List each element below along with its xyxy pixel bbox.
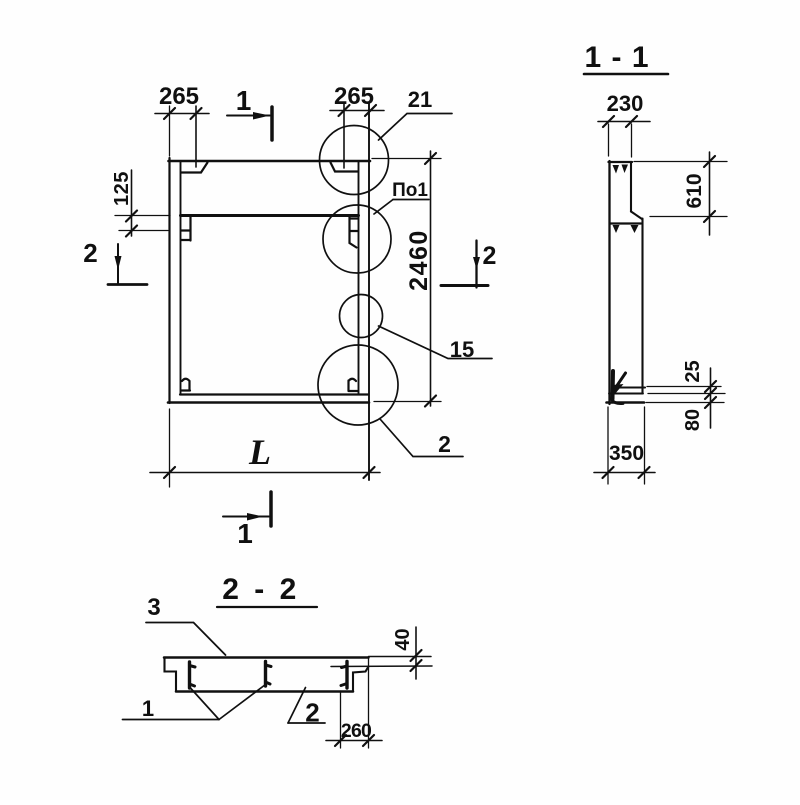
section profile right upper edge: [630, 162, 632, 212]
panel top edge: [169, 160, 371, 163]
panel left outer edge: [168, 158, 170, 403]
dimension 125: extension A: [115, 215, 170, 217]
slab right end step: [353, 667, 369, 692]
svg-text:265: 265: [159, 83, 199, 110]
svg-text:3: 3: [147, 594, 160, 621]
dimension L: extension left: [169, 409, 171, 487]
anchor hook diagonal: [614, 373, 626, 390]
svg-text:610: 610: [683, 173, 706, 208]
svg-text:2: 2: [83, 238, 97, 268]
svg-text:265: 265: [334, 83, 374, 110]
corner notch top-right: [331, 163, 359, 172]
dimension 350: extension A: [607, 407, 609, 484]
title 1-1 underline: [584, 73, 668, 76]
svg-text:40: 40: [392, 628, 414, 650]
label 2: leader: [288, 688, 306, 724]
slab bottom edge: [176, 690, 353, 693]
svg-text:По1: По1: [392, 180, 428, 201]
label 1: shelf: [123, 719, 220, 721]
dimension 350: tick B: [639, 467, 650, 478]
dimension 80: extension C: [646, 402, 724, 404]
dimension 265 left: tick A: [164, 108, 175, 119]
rebar mark top A: [613, 165, 620, 174]
svg-text:15: 15: [450, 337, 474, 362]
dimension 265 left: line: [155, 113, 209, 115]
panel left inner line: [180, 162, 182, 394]
section mark 2 left: line: [117, 244, 119, 284]
panel right inner line: [358, 162, 360, 394]
section mark 2 right: arrow: [473, 257, 480, 269]
rebar bar 3 hooks: [341, 666, 347, 686]
dimension 265 left: extension line A: [169, 106, 171, 156]
dimension 2460: extension top: [372, 158, 441, 160]
anchor hook head: [613, 384, 624, 395]
svg-text:21: 21: [408, 87, 432, 112]
section mark 1 top: bar: [270, 107, 274, 140]
svg-text:1: 1: [237, 518, 253, 549]
section profile inner flange line: [611, 222, 642, 224]
label По1: underline: [393, 199, 429, 201]
label 3: leader: [146, 623, 226, 656]
section mark 2 left: arrow: [115, 256, 122, 270]
corner notch top-left: [181, 163, 208, 173]
dimension 350: extension B: [644, 407, 646, 484]
label По1: leader: [374, 200, 393, 215]
bracket detail bottom-right: [349, 379, 359, 391]
bracket detail mid-left: [181, 217, 191, 241]
dimension 610: extension bottom: [650, 216, 727, 218]
section profile left edge: [608, 161, 610, 404]
dimension 230: extension B: [631, 124, 633, 157]
dimension 265 right: extension line A: [343, 103, 345, 168]
rebar mark mid A: [613, 225, 620, 233]
rebar bar 1: [188, 662, 191, 688]
svg-text:80: 80: [682, 409, 704, 431]
slab top edge: [164, 656, 369, 659]
section mark 1 bottom: bar: [269, 492, 273, 526]
svg-text:25: 25: [682, 360, 704, 382]
title 2-2 underline: [217, 606, 317, 608]
rebar bar 1 hooks: [190, 666, 196, 687]
dimension 230: tick B: [626, 116, 637, 127]
dimension 260: tick B: [363, 735, 374, 746]
svg-text:125: 125: [111, 171, 133, 206]
dimension 610: line: [709, 152, 711, 235]
dimension 40: line: [415, 627, 417, 679]
svg-text:L: L: [248, 432, 271, 472]
dimension L: tick left: [164, 467, 175, 478]
dimension 125: tick top: [126, 211, 137, 222]
dimension 350: line: [594, 472, 655, 474]
panel right outer edge / extension line: [368, 103, 370, 480]
section mark 1 bottom: line: [223, 516, 269, 518]
svg-text:2: 2: [483, 242, 497, 270]
dimension 25: extension B: [648, 393, 725, 395]
label 1: leader V right: [219, 685, 266, 720]
label 2: leader: [380, 419, 463, 457]
anchor hook in foot: [611, 371, 616, 399]
dimension 2460: tick bottom: [425, 396, 436, 407]
detail circle 1: [320, 126, 389, 195]
panel bottom band bottom line: [168, 401, 369, 404]
panel bottom band top line: [180, 393, 368, 395]
detail circle 4: [318, 345, 398, 425]
rebar bar 3: [345, 662, 348, 689]
section mark 2 right: line: [475, 241, 477, 288]
dimension 230: tick A: [603, 116, 614, 127]
svg-text:350: 350: [609, 442, 644, 465]
dimension L: line: [150, 472, 380, 474]
svg-text:1: 1: [142, 696, 154, 721]
dimension 265 right: tick A: [339, 105, 350, 116]
section profile right lower edge: [641, 219, 643, 394]
panel middle rib line: [181, 214, 359, 217]
detail circle 2: [323, 205, 391, 273]
anchor hook toe: [611, 399, 623, 404]
dimension 125: extension B: [119, 230, 168, 232]
section mark 2 right: bar: [441, 284, 488, 287]
svg-text:1 - 1: 1 - 1: [584, 41, 649, 74]
label 15: leader: [379, 326, 493, 359]
dimension 125: line: [131, 170, 133, 236]
dimension 25: extension A: [647, 386, 721, 388]
dimension 25: tick A: [705, 381, 716, 392]
svg-text:230: 230: [607, 91, 644, 116]
dimension 265 right: line: [330, 110, 384, 112]
dimension 40: extension (top edge extended): [369, 656, 432, 658]
slab left end step: [165, 658, 177, 692]
dimension 260: tick A: [335, 735, 346, 746]
svg-text:2: 2: [438, 431, 451, 457]
dimension 80: tick C: [705, 397, 716, 408]
dimension L: tick right: [364, 467, 375, 478]
section mark 1 top: arrow: [253, 112, 270, 120]
dimension 2460: tick top: [425, 153, 436, 164]
svg-text:2 - 2: 2 - 2: [222, 573, 300, 606]
section profile top edge: [609, 161, 633, 163]
svg-text:260: 260: [341, 720, 372, 742]
dimension 610: extension top: [634, 161, 727, 163]
bracket detail bottom-left: [181, 379, 190, 391]
dimension 2460: extension bottom: [374, 401, 441, 403]
dimension 350: tick A: [603, 467, 614, 478]
dimension 265 right: tick B: [365, 105, 376, 116]
label 21: leader: [379, 114, 453, 141]
dimension 230: line: [598, 121, 650, 123]
detail circle 3: [340, 295, 383, 338]
section profile step: [631, 212, 642, 220]
dimension 25-80: line: [710, 368, 712, 428]
dimension 2460: line: [430, 151, 432, 406]
dimension 40: tick B: [411, 660, 422, 671]
dimension 40: tick A: [411, 650, 422, 661]
svg-text:2460: 2460: [405, 229, 433, 291]
slab flange underside line: [331, 665, 432, 668]
svg-text:1: 1: [236, 85, 252, 116]
foot top line: [618, 386, 645, 388]
rebar bar 2 hooks: [266, 665, 272, 684]
section mark 1 top: line: [227, 115, 270, 117]
section mark 1 bottom: arrow: [247, 513, 263, 521]
dimension 260: line: [326, 740, 382, 742]
dimension 265 left: tick B: [191, 108, 202, 119]
rebar bar 2: [264, 662, 267, 687]
label 1: leader V left: [190, 688, 219, 720]
dimension 260: extension A: [340, 691, 342, 748]
dimension 260: extension B: [368, 659, 370, 748]
dimension 125: tick bottom: [126, 226, 137, 237]
foot bottom line: [607, 401, 645, 404]
rebar mark mid B: [631, 225, 639, 233]
dimension 80: tick B: [705, 388, 716, 399]
foot middle line: [609, 393, 643, 395]
rebar mark top B: [622, 165, 629, 174]
bracket detail mid-right (По1 item): [350, 217, 359, 248]
label 2: shelf: [288, 722, 325, 724]
dimension 265 left: extension line B: [195, 106, 197, 167]
dimension 610: tick top: [704, 156, 715, 167]
dimension 610: tick bottom: [704, 211, 715, 222]
dimension 230: extension A: [608, 124, 610, 156]
section mark 2 left: bar: [108, 283, 147, 286]
